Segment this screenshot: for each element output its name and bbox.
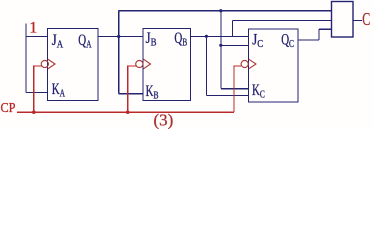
clock edge wedge FFC <box>249 59 256 69</box>
wire QB to JC <box>191 35 249 37</box>
wire logic-1 stub vertical feeding JA and KA <box>25 24 27 93</box>
flip-flop FFA box <box>48 29 99 101</box>
wire QA branch up <box>118 11 120 37</box>
wire gate output <box>353 19 362 21</box>
wire QA drop from top bus <box>220 11 222 89</box>
wire KC input lower <box>206 95 248 97</box>
wire clock B riser <box>128 66 136 112</box>
wire KB input <box>119 93 143 95</box>
clock edge wedge FFA <box>48 59 55 69</box>
wire QB branch down to KC <box>205 36 207 95</box>
svg-text:1: 1 <box>29 20 37 37</box>
node JC lower junction <box>219 44 222 47</box>
svg-text:QA: QA <box>78 31 91 51</box>
svg-text:KC: KC <box>252 81 265 101</box>
wire CP rail <box>17 111 234 113</box>
wire gate input 3 <box>319 28 332 30</box>
node top bus junction <box>219 9 222 12</box>
node CP rail junction B <box>126 110 130 114</box>
clock bubble FFC <box>241 60 248 67</box>
wire JC input lower <box>221 44 249 46</box>
svg-text:KA: KA <box>52 80 65 100</box>
node QB junction <box>205 35 208 38</box>
svg-text:JA: JA <box>52 32 64 51</box>
flip-flop FFC box <box>249 29 299 102</box>
svg-text:CP: CP <box>1 101 16 116</box>
svg-text:JC: JC <box>252 31 263 50</box>
wire gate input 2 <box>233 20 332 22</box>
node QA junction at JB <box>117 35 120 38</box>
wire KA input <box>26 92 48 94</box>
clock edge wedge FFB <box>143 59 150 69</box>
svg-text:(3): (3) <box>154 111 174 130</box>
clock bubble FFB <box>136 60 143 67</box>
svg-text:QB: QB <box>174 29 187 49</box>
svg-text:C: C <box>362 9 370 29</box>
wire QC output <box>298 39 319 41</box>
svg-text:KB: KB <box>146 82 159 102</box>
wire JA input <box>26 36 48 38</box>
node CP rail junction A <box>32 110 36 114</box>
wire QB riser to gate input 2 <box>232 21 234 37</box>
wire QA branch down to KB <box>118 37 120 94</box>
AND gate U1 box <box>332 2 354 38</box>
wire QC riser <box>318 29 320 40</box>
svg-text:QC: QC <box>281 30 294 50</box>
wire clock C riser <box>234 66 241 112</box>
wire clock A riser <box>34 66 42 112</box>
wire top bus QA to gate input 1 <box>119 10 332 12</box>
wire QA to JB <box>98 36 143 38</box>
clock bubble FFA <box>41 60 48 67</box>
flip-flop FFB box <box>143 29 191 101</box>
svg-text:JB: JB <box>146 30 157 49</box>
wire KC input upper <box>221 88 249 90</box>
